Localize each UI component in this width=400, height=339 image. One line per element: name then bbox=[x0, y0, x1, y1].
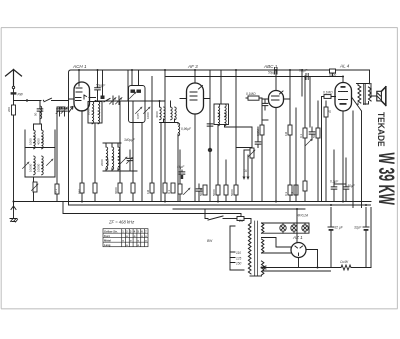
svg-text:50µµF: 50µµF bbox=[96, 84, 106, 88]
svg-text:4F/0,2A: 4F/0,2A bbox=[297, 214, 308, 218]
svg-text:32 µF: 32 µF bbox=[335, 226, 344, 230]
svg-text:ZF = 468 kHz: ZF = 468 kHz bbox=[108, 220, 135, 225]
svg-text:150: 150 bbox=[236, 262, 242, 266]
svg-text:1M: 1M bbox=[284, 131, 288, 136]
svg-text:TA: TA bbox=[243, 169, 247, 173]
svg-text:5000: 5000 bbox=[230, 189, 234, 196]
svg-text:W 39 KW: W 39 KW bbox=[374, 153, 399, 206]
svg-text:550: 550 bbox=[78, 189, 82, 194]
svg-text:Gelber Str.: Gelber Str. bbox=[104, 229, 118, 233]
svg-text:10000: 10000 bbox=[37, 163, 41, 172]
svg-text:1000: 1000 bbox=[146, 112, 150, 119]
svg-text:0,1: 0,1 bbox=[299, 133, 303, 138]
svg-text:125: 125 bbox=[236, 257, 242, 261]
svg-text:50: 50 bbox=[34, 112, 38, 116]
svg-text:2000: 2000 bbox=[100, 159, 104, 166]
svg-text:50000: 50000 bbox=[199, 187, 203, 196]
svg-text:50µF: 50µF bbox=[177, 165, 185, 169]
svg-text:AF 3: AF 3 bbox=[187, 64, 198, 69]
svg-text:2A: 2A bbox=[238, 219, 243, 223]
svg-text:0,1MΩ: 0,1MΩ bbox=[246, 92, 256, 96]
svg-text:AZ 1: AZ 1 bbox=[292, 235, 303, 240]
svg-text:0,1: 0,1 bbox=[167, 189, 171, 194]
svg-text:ABC 1: ABC 1 bbox=[263, 64, 278, 69]
svg-text:Lang: Lang bbox=[104, 243, 111, 247]
svg-text:110: 110 bbox=[236, 251, 241, 255]
svg-text:ACH 1: ACH 1 bbox=[72, 64, 87, 69]
svg-text:70: 70 bbox=[328, 110, 332, 114]
svg-text:50µµF: 50µµF bbox=[268, 71, 278, 75]
svg-text:0,96µF: 0,96µF bbox=[181, 127, 192, 131]
svg-text:0,1µF: 0,1µF bbox=[299, 69, 308, 73]
svg-text:0,1MΩ: 0,1MΩ bbox=[323, 91, 333, 95]
svg-text:5000: 5000 bbox=[212, 189, 216, 196]
svg-text:2000: 2000 bbox=[87, 108, 91, 115]
svg-text:Mittel: Mittel bbox=[104, 238, 111, 242]
svg-text:Cu/W: Cu/W bbox=[340, 260, 349, 264]
svg-text:340µµF: 340µµF bbox=[124, 138, 136, 142]
svg-text:5M: 5M bbox=[312, 133, 316, 138]
svg-text:4000: 4000 bbox=[155, 111, 159, 118]
svg-text:50µF: 50µF bbox=[348, 184, 356, 188]
svg-text:0,3: 0,3 bbox=[284, 191, 288, 196]
svg-text:32µF: 32µF bbox=[354, 226, 362, 230]
svg-text:3000: 3000 bbox=[106, 159, 110, 166]
svg-text:5000: 5000 bbox=[329, 73, 336, 77]
svg-text:1000: 1000 bbox=[29, 138, 33, 145]
svg-text:TEKADE: TEKADE bbox=[376, 112, 387, 147]
svg-text:473: 473 bbox=[54, 189, 58, 194]
svg-text:6000: 6000 bbox=[114, 187, 118, 194]
svg-text:0,1µF: 0,1µF bbox=[330, 180, 339, 184]
svg-text:1M: 1M bbox=[146, 189, 150, 194]
svg-text:0,5M: 0,5M bbox=[256, 129, 260, 136]
svg-text:200: 200 bbox=[7, 107, 11, 112]
svg-text:0,1: 0,1 bbox=[290, 191, 294, 196]
svg-text:4000: 4000 bbox=[37, 138, 41, 145]
svg-text:10000: 10000 bbox=[29, 163, 33, 172]
svg-text:Kurz: Kurz bbox=[104, 234, 111, 238]
svg-text:AL 4: AL 4 bbox=[339, 64, 350, 69]
svg-text:0,05: 0,05 bbox=[136, 113, 140, 119]
